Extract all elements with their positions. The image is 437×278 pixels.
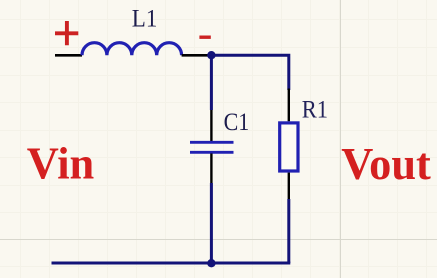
wire: L1 pin 2 to node A (black) [182, 54, 212, 57]
svg-text:L1: L1 [132, 6, 158, 33]
wire: C1 to node B (navy) [210, 183, 213, 263]
svg-text:R1: R1 [302, 97, 328, 124]
inductor L1 body (4 arcs) [82, 43, 182, 56]
svg-text:Vin: Vin [27, 138, 94, 189]
capacitor C1 top plate [190, 141, 234, 144]
wire: C1 pin 1 (black) [210, 110, 212, 141]
svg-text:Vout: Vout [341, 138, 431, 189]
wire: node A down to C1 (navy) [210, 55, 213, 110]
wire: node A to right corner (navy) [211, 55, 288, 90]
polarity - symbol [199, 36, 210, 39]
capacitor C1 bottom plate [190, 151, 234, 154]
wire: R1 pin 2 (black) [288, 173, 290, 199]
wire: R1 pin 1 (black) [288, 89, 290, 122]
polarity + symbol [55, 21, 78, 45]
wire: bottom rail (navy) [52, 262, 291, 265]
svg-text:C1: C1 [224, 109, 250, 137]
resistor R1 body [280, 123, 298, 171]
node B junction dot (bottom) [207, 259, 215, 267]
wire: input top stub (pin 1 of L1, black) [55, 54, 82, 57]
wire: C1 pin 2 (black) [210, 154, 212, 184]
node A junction dot (top) [207, 51, 215, 59]
wire: R1 down to bottom rail (navy) [287, 199, 290, 263]
